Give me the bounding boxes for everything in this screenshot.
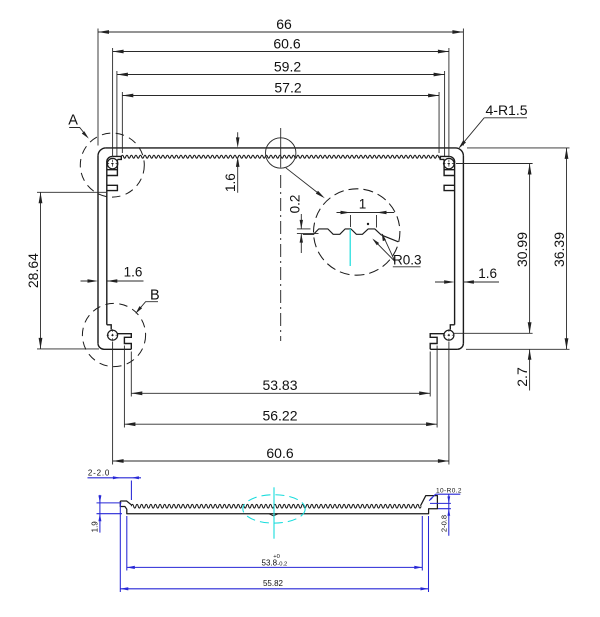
detail locator circle on serration: [266, 138, 296, 168]
dimension 2-2.0 (left step): [88, 478, 142, 500]
cover plate left step top: [120, 501, 131, 505]
profile top inner surface left segment: [112, 156, 121, 159]
serrated inner top surface: [121, 155, 441, 158]
svg-text:1.6: 1.6: [124, 265, 143, 280]
dimension 66: [98, 29, 463, 146]
profile left outer wall: [97, 156, 99, 343]
profile right inner wall: [454, 161, 456, 325]
dimension 60.6 top: [113, 48, 449, 156]
profile bottom-right outer corner: [457, 343, 463, 349]
cover plate bottom center notch: [269, 514, 278, 516]
svg-text:2.7: 2.7: [514, 367, 530, 387]
dimension 30.99: [453, 164, 533, 334]
detail balloon dashed circle: [314, 189, 400, 275]
profile top-left inner corner: [107, 156, 113, 161]
svg-text:30.99: 30.99: [514, 232, 530, 267]
dimension 2.7: [529, 349, 531, 390]
svg-text:4-R1.5: 4-R1.5: [486, 102, 528, 118]
detail leader arrow to balloon: [286, 168, 323, 197]
dimension 53.83: [131, 352, 430, 397]
detail cyan center line: [349, 229, 351, 266]
detail tooth tip level line: [297, 228, 311, 230]
svg-text:59.2: 59.2: [274, 59, 301, 75]
screw boss top-right PCB slot fingers: [444, 159, 455, 190]
svg-text:60.6: 60.6: [266, 445, 293, 461]
screw boss bottom-left neck: [107, 325, 111, 330]
svg-text:B: B: [150, 287, 160, 303]
profile top-right inner corner: [449, 156, 455, 161]
profile left inner wall: [106, 161, 108, 325]
dimension 1.6 top wall: [237, 132, 239, 193]
screw boss top-right circle: [444, 158, 454, 168]
screw boss top-left center mark: [107, 160, 119, 168]
dimension 1 (tooth pitch): [337, 213, 395, 228]
svg-text:36.39: 36.39: [551, 232, 567, 267]
svg-text:1.9: 1.9: [91, 521, 100, 533]
screw boss bottom-right cover slot fingers: [430, 334, 444, 350]
svg-text:+0: +0: [273, 554, 280, 560]
profile top outer wall line: [106, 147, 456, 149]
screw boss bottom-right circle: [444, 330, 454, 340]
dimension 1.6 right wall: [435, 281, 499, 283]
screw boss bottom-left cover slot fingers: [117, 334, 131, 350]
profile top-left outer corner R1.5: [98, 148, 106, 156]
svg-text:1.6: 1.6: [478, 266, 497, 281]
svg-text:56.22: 56.22: [262, 408, 297, 424]
svg-text:A: A: [68, 113, 78, 129]
profile right outer wall: [462, 156, 464, 343]
svg-text:-0.2: -0.2: [277, 562, 287, 568]
dimension 60.6 bottom: [113, 342, 449, 465]
dimension 0.2 (tooth depth): [297, 214, 319, 253]
screw boss bottom-right neck: [450, 325, 454, 330]
profile bottom-left outer corner: [98, 343, 104, 349]
svg-text:55.82: 55.82: [263, 579, 284, 588]
dimension 57.2: [122, 92, 439, 153]
screw boss top-right center mark: [443, 160, 470, 168]
svg-text:R0.3: R0.3: [393, 253, 422, 268]
dimension 55.82: [120, 503, 428, 592]
dimension 36.39: [466, 148, 570, 349]
dimension 53.8 +0/-0.2: [127, 516, 423, 571]
dimension 1.9 (plate thickness): [97, 495, 123, 533]
profile top inner surface right segment: [440, 156, 449, 159]
cover plate outline: [120, 496, 437, 514]
svg-text:1: 1: [359, 197, 367, 212]
svg-text:66: 66: [276, 16, 292, 32]
profile bottom-left lip: [104, 348, 131, 350]
screw boss bottom-left circle: [108, 330, 118, 340]
screw boss top-left circle: [107, 158, 117, 168]
screw boss top-left PCB slot fingers: [107, 159, 118, 190]
svg-text:1.6: 1.6: [223, 173, 238, 192]
detail point mark: [367, 223, 369, 225]
svg-text:60.6: 60.6: [273, 36, 300, 52]
svg-text:28.64: 28.64: [25, 253, 41, 288]
dimension 56.22: [124, 346, 437, 428]
vertical center line (dash-dot): [280, 175, 282, 341]
detail locator vertical line: [280, 128, 282, 168]
cyan center line: [273, 487, 275, 538]
detail tooth profile: [303, 229, 399, 242]
dimension 28.64: [37, 192, 106, 349]
svg-text:10-R0.2: 10-R0.2: [436, 487, 462, 494]
dimension 1.6 left wall: [81, 280, 144, 282]
cover plate serrated top: [131, 504, 421, 508]
svg-text:2-0.8: 2-0.8: [439, 515, 448, 532]
detail circle B (dashed): [82, 303, 145, 366]
dimension 59.2: [117, 71, 445, 156]
svg-text:2-2.0: 2-2.0: [88, 468, 110, 477]
detail circle A (dashed): [80, 133, 144, 197]
label R0.3 with leaders: [374, 234, 421, 267]
dimension 2-0.8 (hook lip): [430, 494, 451, 535]
cyan center ellipse: [243, 495, 305, 523]
profile bottom-right lip: [430, 348, 457, 350]
svg-text:57.2: 57.2: [274, 80, 301, 96]
svg-text:53.83: 53.83: [262, 377, 297, 393]
svg-text:0.2: 0.2: [287, 195, 302, 214]
profile top-right outer corner R1.5: [456, 148, 464, 156]
